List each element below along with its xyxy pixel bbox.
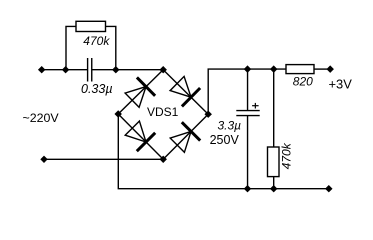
diode D4 bottom-to-right xyxy=(170,122,200,152)
wire bridge side top-right xyxy=(163,70,208,115)
svg-text:~220V: ~220V xyxy=(23,111,60,125)
wire left riser of R1 loop xyxy=(66,26,76,69)
node junction R3 bottom xyxy=(270,185,277,192)
wire bridge left corner drop and bottom rail xyxy=(118,114,328,189)
node bridge top corner xyxy=(160,66,167,73)
node bridge right corner xyxy=(205,111,212,118)
wire bridge right corner riser to top output rail xyxy=(208,69,286,114)
diode D3 left-to-bottom xyxy=(125,121,155,151)
wire top main from input terminal to cap C1 left plate xyxy=(42,69,88,71)
terminal input bottom ~220V xyxy=(41,156,48,163)
wire bridge side bottom-right xyxy=(163,114,208,159)
svg-text:470k: 470k xyxy=(83,34,110,48)
node bridge left corner xyxy=(115,111,122,118)
wire capacitor C2 bottom lead xyxy=(247,116,249,189)
wire right riser of R1 loop xyxy=(106,26,116,69)
node junction C2 top xyxy=(244,66,251,73)
node junction R3 top xyxy=(270,66,277,73)
wire resistor R3 bottom lead xyxy=(273,177,275,189)
wire bridge side left-top xyxy=(118,70,163,114)
svg-text:3.3µ: 3.3µ xyxy=(218,118,242,132)
svg-text:+3V: +3V xyxy=(329,77,353,92)
diode D2 top-to-right xyxy=(170,76,200,106)
resistor R3 body 470k vertical xyxy=(268,147,280,177)
capacitor C2 polarity plus sign xyxy=(252,103,259,109)
wire top main from cap C1 right plate to bridge top corner xyxy=(92,69,163,71)
svg-text:250V: 250V xyxy=(210,133,240,147)
node junction C2 bottom xyxy=(244,185,251,192)
node junction R1/C1 left xyxy=(62,66,69,73)
wire lower input from terminal to bridge bottom corner xyxy=(44,158,163,160)
terminal output +3V xyxy=(327,66,334,73)
node bridge bottom corner xyxy=(160,156,167,163)
wire from R2 to +3V terminal xyxy=(314,68,327,70)
resistor R2 body 820 xyxy=(286,65,314,74)
node junction R1/C1 right xyxy=(113,66,120,73)
resistor R1 body 470k xyxy=(76,21,106,31)
diode D1 left-to-top xyxy=(125,77,155,107)
wire resistor R3 top lead xyxy=(273,69,275,147)
svg-text:470k: 470k xyxy=(280,142,294,169)
terminal bottom rail right end xyxy=(326,185,333,192)
capacitor C1 plates 0.33u xyxy=(87,58,89,82)
svg-text:820: 820 xyxy=(293,74,313,88)
svg-text:VDS1: VDS1 xyxy=(147,105,179,119)
capacitor C2 plates 3.3u 250V xyxy=(236,110,259,112)
wire bridge side left-bottom xyxy=(118,114,163,159)
terminal input top ~220V xyxy=(38,66,45,73)
wire capacitor C2 top lead xyxy=(247,69,249,111)
svg-text:0.33µ: 0.33µ xyxy=(81,82,113,96)
